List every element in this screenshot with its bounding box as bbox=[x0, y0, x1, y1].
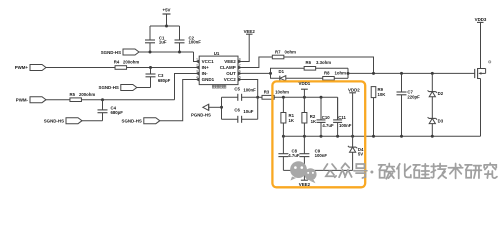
svg-text:PWM+: PWM+ bbox=[15, 65, 29, 70]
svg-text:100nF: 100nF bbox=[189, 40, 202, 45]
svg-text:100nF: 100nF bbox=[315, 153, 328, 158]
svg-text:SGND-HS: SGND-HS bbox=[44, 118, 64, 123]
svg-text:R8: R8 bbox=[324, 70, 330, 75]
svg-text:C5: C5 bbox=[234, 86, 240, 91]
svg-text:1ohm: 1ohm bbox=[335, 70, 347, 75]
svg-text:IN-: IN- bbox=[202, 71, 209, 76]
svg-text:100nF: 100nF bbox=[243, 88, 256, 93]
svg-text:SGND-HS: SGND-HS bbox=[99, 85, 119, 90]
svg-text:SGND-HS: SGND-HS bbox=[101, 50, 121, 55]
svg-text:C6: C6 bbox=[234, 107, 240, 112]
svg-text:PGND-HS: PGND-HS bbox=[191, 112, 211, 117]
svg-text:D2: D2 bbox=[438, 91, 444, 96]
svg-text:1uF: 1uF bbox=[159, 40, 167, 45]
svg-text:4: 4 bbox=[196, 75, 198, 79]
svg-text:VDD2: VDD2 bbox=[348, 88, 360, 93]
svg-text:200ohm: 200ohm bbox=[123, 59, 139, 64]
svg-text:1K: 1K bbox=[311, 119, 317, 124]
svg-text:U1: U1 bbox=[214, 51, 220, 56]
svg-text:VEE2: VEE2 bbox=[244, 29, 256, 34]
svg-text:1: 1 bbox=[196, 57, 198, 61]
svg-text:4.7uF: 4.7uF bbox=[288, 153, 300, 158]
svg-text:10K: 10K bbox=[378, 92, 387, 97]
svg-text:OUT: OUT bbox=[226, 71, 236, 76]
svg-text:SGND-HS: SGND-HS bbox=[122, 118, 142, 123]
svg-text:0ohm: 0ohm bbox=[285, 49, 297, 54]
svg-text:R4: R4 bbox=[114, 59, 120, 64]
svg-text:10ohm: 10ohm bbox=[275, 90, 289, 95]
svg-text:100nF: 100nF bbox=[339, 123, 352, 128]
svg-text:IN+: IN+ bbox=[202, 65, 210, 70]
svg-text:VEE2: VEE2 bbox=[224, 59, 236, 64]
svg-text:CLAMP: CLAMP bbox=[220, 65, 236, 70]
svg-text:5: 5 bbox=[239, 75, 241, 79]
svg-text:1K: 1K bbox=[289, 118, 295, 123]
svg-text:D3: D3 bbox=[438, 118, 444, 123]
svg-text:220pF: 220pF bbox=[407, 95, 420, 100]
svg-text:680pF: 680pF bbox=[111, 110, 124, 115]
svg-text:VCC2: VCC2 bbox=[224, 77, 237, 82]
svg-text:C7: C7 bbox=[407, 89, 413, 94]
svg-text:3.3ohm: 3.3ohm bbox=[316, 60, 331, 65]
svg-text:5V: 5V bbox=[358, 151, 363, 156]
svg-text:R6: R6 bbox=[306, 60, 312, 65]
svg-text:R5: R5 bbox=[70, 92, 76, 97]
svg-text:4.7uF: 4.7uF bbox=[322, 123, 334, 128]
svg-text:PWM-: PWM- bbox=[16, 97, 29, 102]
svg-text:VDD1: VDD1 bbox=[299, 81, 311, 86]
svg-text:200ohm: 200ohm bbox=[79, 92, 95, 97]
svg-text:10uF: 10uF bbox=[243, 109, 253, 114]
svg-text:7: 7 bbox=[239, 63, 241, 67]
svg-text:R7: R7 bbox=[275, 49, 281, 54]
svg-text:6: 6 bbox=[239, 69, 241, 73]
svg-text:VCC1: VCC1 bbox=[202, 59, 215, 64]
svg-text:VEE2: VEE2 bbox=[299, 182, 311, 187]
svg-text:VDD3: VDD3 bbox=[475, 17, 487, 22]
svg-text:8: 8 bbox=[239, 57, 241, 61]
svg-text:2: 2 bbox=[196, 63, 198, 67]
svg-text:680pF: 680pF bbox=[158, 78, 171, 83]
svg-text:R3: R3 bbox=[264, 90, 270, 95]
svg-text:+5V: +5V bbox=[163, 8, 171, 13]
svg-text:3: 3 bbox=[196, 69, 198, 73]
svg-text:C11: C11 bbox=[338, 115, 346, 120]
svg-text:GND1: GND1 bbox=[202, 77, 215, 82]
svg-text:C10: C10 bbox=[322, 115, 330, 120]
svg-text:D1: D1 bbox=[279, 69, 285, 74]
